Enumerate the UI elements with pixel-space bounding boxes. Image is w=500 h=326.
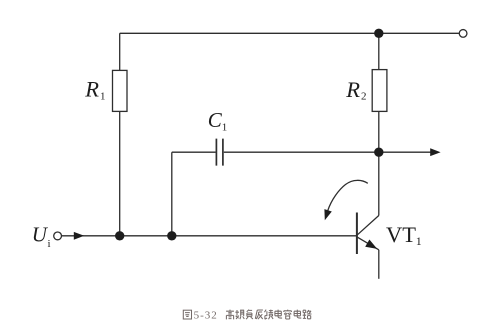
svg-text:5-32: 5-32 bbox=[194, 310, 218, 322]
svg-text:R: R bbox=[84, 77, 99, 102]
svg-text:R: R bbox=[345, 77, 360, 102]
svg-text:2: 2 bbox=[361, 91, 367, 103]
svg-text:i: i bbox=[48, 238, 51, 250]
svg-text:1: 1 bbox=[416, 234, 422, 248]
svg-text:C: C bbox=[208, 108, 223, 132]
svg-text:1: 1 bbox=[100, 91, 106, 103]
svg-text:U: U bbox=[32, 223, 49, 247]
svg-text:1: 1 bbox=[222, 122, 228, 134]
svg-text:VT: VT bbox=[386, 222, 416, 247]
